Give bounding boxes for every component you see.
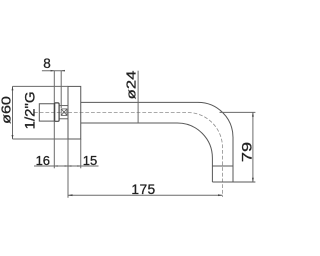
svg-text:ø60: ø60 [0,96,14,124]
svg-text:175: 175 [131,182,155,197]
svg-text:ø24: ø24 [125,71,139,100]
svg-text:8: 8 [43,56,51,71]
svg-text:16: 16 [36,153,50,168]
svg-text:1/2"G: 1/2"G [23,91,38,129]
svg-text:15: 15 [83,153,97,168]
svg-text:79: 79 [239,142,255,162]
